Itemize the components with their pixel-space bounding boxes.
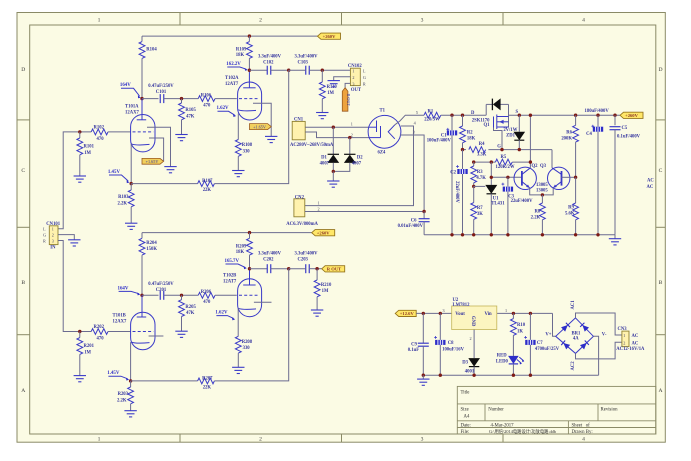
wire ground bus 12V xyxy=(423,374,598,376)
svg-text:2: 2 xyxy=(259,18,262,24)
svg-text:TL431: TL431 xyxy=(491,201,505,206)
resistor R107 feedback xyxy=(131,183,197,185)
svg-text:R6: R6 xyxy=(566,131,572,136)
svg-text:164V: 164V xyxy=(118,286,129,291)
svg-text:4A: 4A xyxy=(573,336,579,341)
ground R101 xyxy=(74,176,86,182)
svg-text:GND: GND xyxy=(470,316,475,327)
wire AC1 xyxy=(576,313,622,335)
capacitor C203 xyxy=(306,264,310,273)
wire CN2 pin2 xyxy=(305,211,424,213)
port +1.65V (T102A cathode tag) xyxy=(250,124,272,130)
resistor R201 xyxy=(79,332,81,338)
capacitor C103 xyxy=(306,66,310,75)
wire Q1 gate xyxy=(494,128,503,150)
svg-text:3.3K: 3.3K xyxy=(477,152,487,157)
svg-text:R OUT: R OUT xyxy=(327,267,341,272)
mosfet Q1 xyxy=(485,104,487,115)
svg-text:0.47uF/250V: 0.47uF/250V xyxy=(148,84,174,89)
svg-text:1: 1 xyxy=(318,200,320,205)
capacitor C202 xyxy=(250,268,268,270)
svg-text:2.2K: 2.2K xyxy=(531,216,541,221)
svg-text:File:: File: xyxy=(461,430,470,435)
svg-text:4007: 4007 xyxy=(352,162,362,167)
svg-text:12AX7: 12AX7 xyxy=(125,110,139,115)
svg-text:R101: R101 xyxy=(84,145,95,150)
svg-text:3: 3 xyxy=(421,18,424,24)
capacitor C6 xyxy=(423,212,425,219)
resistor R109 xyxy=(248,34,251,37)
resistor R102 xyxy=(91,129,108,135)
svg-text:1: 1 xyxy=(505,308,507,313)
wire T102B stub xyxy=(254,301,272,303)
LED LED0 xyxy=(508,356,519,364)
svg-text:LM7812: LM7812 xyxy=(453,303,471,308)
svg-text:Date:: Date: xyxy=(461,424,471,429)
svg-text:G: G xyxy=(43,233,46,238)
svg-text:1.45V: 1.45V xyxy=(107,371,120,376)
svg-text:IN: IN xyxy=(50,246,56,251)
svg-text:0.1uF: 0.1uF xyxy=(408,348,419,353)
node plate T102B xyxy=(248,267,251,270)
svg-text:+12.6V: +12.6V xyxy=(400,311,415,316)
capacitor C9 xyxy=(422,313,424,343)
power port +260V xyxy=(318,33,341,39)
svg-text:3: 3 xyxy=(413,130,415,135)
svg-text:1: 1 xyxy=(351,122,353,127)
svg-text:18K: 18K xyxy=(236,250,245,255)
svg-text:4-Mar-2017: 4-Mar-2017 xyxy=(491,424,515,429)
svg-text:AC: AC xyxy=(632,334,639,339)
ground R103 xyxy=(125,223,137,229)
wire emitters to R8 xyxy=(530,188,554,195)
svg-text:Revision: Revision xyxy=(601,408,619,413)
svg-text:2.2K: 2.2K xyxy=(117,399,127,404)
diode D3 xyxy=(468,358,480,367)
wire R5 row xyxy=(474,161,496,163)
svg-text:R203: R203 xyxy=(118,392,129,397)
svg-text:13005: 13005 xyxy=(536,189,548,194)
capacitor C3 xyxy=(507,177,509,186)
svg-text:A: A xyxy=(21,388,25,394)
regulator U2 LM7812 xyxy=(452,306,497,330)
resistor R4 xyxy=(469,147,486,153)
svg-text:0.01uF/400V: 0.01uF/400V xyxy=(398,224,424,229)
svg-text:Drawn By:: Drawn By: xyxy=(572,430,593,435)
svg-text:330: 330 xyxy=(243,346,251,351)
resistor R9 xyxy=(575,177,577,203)
svg-text:C103: C103 xyxy=(297,60,308,65)
wire +260V rail lower xyxy=(142,232,312,234)
resistor R5 xyxy=(495,159,512,165)
wire AC2 xyxy=(576,342,622,359)
resistor R7 xyxy=(473,186,475,202)
power port +12.6V xyxy=(395,310,416,316)
ground D1/D2 xyxy=(332,171,334,181)
shunt regulator U1 TL431 xyxy=(490,162,492,185)
svg-text:C102: C102 xyxy=(263,60,274,65)
port ROUT vertical xyxy=(342,88,348,112)
svg-text:R106: R106 xyxy=(201,93,212,98)
title block xyxy=(457,386,656,434)
svg-text:R10: R10 xyxy=(517,323,526,328)
resistor R101 xyxy=(79,132,81,138)
wire input R xyxy=(58,241,91,332)
svg-text:C101: C101 xyxy=(156,90,167,95)
svg-text:CN102: CN102 xyxy=(348,64,362,69)
ground R105 xyxy=(175,135,187,141)
svg-text:T1: T1 xyxy=(380,109,386,114)
capacitor C1 xyxy=(451,115,453,130)
svg-text:22K: 22K xyxy=(203,386,212,391)
wire CN1 pin2 to T1 xyxy=(305,132,369,138)
svg-text:C203: C203 xyxy=(297,257,308,262)
svg-text:R206: R206 xyxy=(201,290,212,295)
svg-text:Sheet of: Sheet of xyxy=(572,424,591,429)
connector CN101 xyxy=(49,226,58,245)
svg-text:R104: R104 xyxy=(146,48,157,53)
node R101 xyxy=(78,130,81,133)
svg-text:6Z4: 6Z4 xyxy=(378,150,386,155)
svg-text:470: 470 xyxy=(97,137,105,142)
resistor R209 xyxy=(248,231,251,234)
svg-text:150K: 150K xyxy=(146,247,157,252)
svg-text:AC280V~268V/50mA: AC280V~268V/50mA xyxy=(290,143,334,148)
node R2 xyxy=(461,114,464,117)
svg-text:AC2: AC2 xyxy=(571,361,576,371)
svg-text:LED0: LED0 xyxy=(496,359,509,364)
svg-text:C: C xyxy=(21,168,25,174)
svg-text:2: 2 xyxy=(623,340,625,345)
svg-text:12AT7: 12AT7 xyxy=(223,280,237,285)
diode D1 xyxy=(332,127,334,154)
port R OUT xyxy=(322,266,345,272)
node R105 xyxy=(180,97,183,100)
resistor R3 xyxy=(473,162,475,166)
svg-text:A: A xyxy=(658,388,662,394)
capacitor C7 xyxy=(529,313,531,340)
svg-text:R: R xyxy=(363,82,366,87)
resistor R205 xyxy=(181,295,183,299)
svg-text:R3: R3 xyxy=(477,170,483,175)
svg-text:OUT: OUT xyxy=(351,88,362,93)
svg-text:2: 2 xyxy=(352,75,354,80)
svg-text:T101B: T101B xyxy=(113,314,126,319)
svg-text:D2: D2 xyxy=(357,156,363,161)
node R110 xyxy=(321,69,324,72)
wire +260V rail top xyxy=(142,35,318,37)
svg-text:220/3W: 220/3W xyxy=(424,118,440,123)
wire T101A heater to ground xyxy=(147,127,171,166)
svg-text:C2: C2 xyxy=(450,170,456,175)
svg-text:CN2: CN2 xyxy=(295,195,305,200)
bus junction nodes xyxy=(450,233,453,236)
svg-text:1: 1 xyxy=(352,68,354,73)
svg-text:T102A: T102A xyxy=(225,76,239,81)
svg-text:3: 3 xyxy=(443,308,445,313)
svg-text:L: L xyxy=(43,227,46,232)
svg-text:1M: 1M xyxy=(327,91,334,96)
svg-text:470: 470 xyxy=(203,300,211,305)
svg-text:3: 3 xyxy=(421,437,424,443)
resistor R208 xyxy=(237,308,239,336)
svg-text:330: 330 xyxy=(243,149,251,154)
svg-text:+260V: +260V xyxy=(625,113,639,118)
resistor R10 xyxy=(512,313,514,318)
capacitor C2 xyxy=(462,150,464,169)
svg-text:13005: 13005 xyxy=(536,183,548,188)
wire grid row lower xyxy=(142,294,159,296)
wire T101A cathode tag xyxy=(149,138,164,161)
wire T101B stub xyxy=(149,335,164,337)
node C1 xyxy=(450,114,453,117)
ground R205 xyxy=(175,331,187,337)
svg-text:18K: 18K xyxy=(467,137,476,142)
svg-text:2.2K: 2.2K xyxy=(117,201,127,206)
svg-text:R205: R205 xyxy=(185,305,196,310)
svg-text:CN3: CN3 xyxy=(618,327,628,332)
svg-text:R207: R207 xyxy=(202,376,213,381)
node plate T102A xyxy=(248,69,251,72)
svg-text:1K: 1K xyxy=(517,329,523,334)
svg-text:100uF/16V: 100uF/16V xyxy=(442,347,464,352)
svg-text:3.3uF/400V: 3.3uF/400V xyxy=(258,54,282,59)
svg-text:+1.65V: +1.65V xyxy=(146,159,159,164)
resistor R104 xyxy=(141,36,143,41)
svg-text:162.2V: 162.2V xyxy=(226,62,241,67)
node C6 xyxy=(422,210,425,213)
node C102/C103 xyxy=(287,69,290,72)
svg-text:470: 470 xyxy=(97,337,105,342)
wire gate net xyxy=(463,149,467,151)
svg-text:R4: R4 xyxy=(479,142,485,147)
wire T101A cathode down xyxy=(130,144,132,184)
svg-text:R210: R210 xyxy=(321,283,332,288)
svg-text:+260V: +260V xyxy=(323,34,337,39)
wire T1 pin3 / CN2 pin2 xyxy=(400,135,424,212)
capacitor C5 xyxy=(613,114,616,117)
node D2 xyxy=(348,136,351,139)
wire grid row xyxy=(142,98,159,100)
wire ground bus HV xyxy=(424,234,615,236)
capacitor C201 xyxy=(160,291,164,300)
svg-text:B: B xyxy=(659,280,663,286)
svg-text:D3: D3 xyxy=(462,360,468,365)
resistor R8 xyxy=(541,195,543,203)
svg-text:12AT7: 12AT7 xyxy=(225,82,239,87)
svg-text:RED: RED xyxy=(497,354,508,359)
node plate T101A xyxy=(140,97,143,100)
wire CN1 pin1 to T1 xyxy=(305,126,369,128)
svg-text:47K: 47K xyxy=(186,311,195,316)
svg-text:4: 4 xyxy=(582,18,585,24)
svg-text:18K: 18K xyxy=(236,53,245,58)
svg-text:1: 1 xyxy=(623,333,625,338)
svg-text:1: 1 xyxy=(98,18,101,24)
svg-text:22uF/400V: 22uF/400V xyxy=(454,181,459,203)
svg-text:120K/2W: 120K/2W xyxy=(496,165,515,170)
svg-text:C5: C5 xyxy=(622,126,628,131)
svg-text:R107: R107 xyxy=(202,179,213,184)
svg-text:3: 3 xyxy=(352,82,354,87)
ground R201 xyxy=(74,376,86,382)
svg-text:4007: 4007 xyxy=(320,162,330,167)
svg-text:R OUT: R OUT xyxy=(346,94,351,107)
resistor R210 xyxy=(316,269,318,280)
resistor R204 xyxy=(141,233,143,239)
svg-text:200K: 200K xyxy=(561,137,572,142)
svg-text:3: 3 xyxy=(52,239,54,244)
svg-text:0.47uF/250V: 0.47uF/250V xyxy=(148,282,174,287)
resistor R108 xyxy=(237,114,239,140)
svg-text:R204: R204 xyxy=(146,241,157,246)
svg-text:T102B: T102B xyxy=(223,274,236,279)
svg-text:+260V: +260V xyxy=(317,231,331,236)
svg-text:180uF/400V: 180uF/400V xyxy=(585,109,610,114)
ground R208 xyxy=(232,367,244,373)
svg-text:165.7V: 165.7V xyxy=(225,259,240,264)
ground R110 xyxy=(316,113,328,119)
svg-text:Vout: Vout xyxy=(455,312,465,317)
svg-text:Vin: Vin xyxy=(485,312,493,317)
svg-text:5.6K: 5.6K xyxy=(565,212,575,217)
wire CN102 pin3 xyxy=(345,83,350,87)
svg-text:4700uF/25V: 4700uF/25V xyxy=(535,347,560,352)
svg-text:CN1: CN1 xyxy=(294,117,304,122)
wire T1 pin4 / CN2 pin1 xyxy=(305,126,414,206)
capacitor C102 xyxy=(249,69,267,71)
resistor R106 xyxy=(198,96,215,102)
svg-text:R108: R108 xyxy=(242,143,253,148)
svg-text:R208: R208 xyxy=(242,340,253,345)
wire CN102 pin2 to ground xyxy=(334,77,351,81)
diode D2 xyxy=(349,138,351,155)
svg-text:R202: R202 xyxy=(94,325,105,330)
svg-text:A4: A4 xyxy=(464,415,470,420)
svg-text:164V: 164V xyxy=(120,83,131,88)
svg-text:22uF/400V: 22uF/400V xyxy=(511,199,533,204)
resistor R110 xyxy=(321,70,323,82)
svg-text:R1: R1 xyxy=(428,109,434,114)
svg-text:0.1uF/400V: 0.1uF/400V xyxy=(617,134,641,139)
svg-text:1M: 1M xyxy=(84,151,91,156)
port +1.65V (T101A cathode tag) xyxy=(142,158,164,164)
svg-text:2: 2 xyxy=(259,437,262,443)
ground T102A xyxy=(265,136,277,142)
svg-text:1: 1 xyxy=(98,437,101,443)
svg-text:AC1: AC1 xyxy=(571,300,576,310)
svg-text:R105: R105 xyxy=(185,108,196,113)
ground bus HV xyxy=(614,235,616,239)
svg-text:AC6.3V/800mA: AC6.3V/800mA xyxy=(286,222,318,227)
svg-text:2: 2 xyxy=(318,206,320,211)
resistor R6 xyxy=(574,114,577,117)
svg-text:1.45V: 1.45V xyxy=(108,170,121,175)
svg-text:R9: R9 xyxy=(568,206,574,211)
svg-text:C201: C201 xyxy=(156,288,167,293)
svg-text:AC: AC xyxy=(632,341,639,346)
resistor R103 xyxy=(130,184,132,190)
svg-text:3.3uF/400V: 3.3uF/400V xyxy=(294,54,318,59)
svg-text:2: 2 xyxy=(470,336,472,341)
svg-text:3.3uF/400V: 3.3uF/400V xyxy=(294,251,318,256)
svg-text:C202: C202 xyxy=(263,257,274,262)
svg-text:ZD1: ZD1 xyxy=(506,133,516,138)
node R205 xyxy=(180,294,183,297)
svg-text:D: D xyxy=(21,67,25,73)
resistor R202 xyxy=(91,329,108,335)
resistor R207 feedback xyxy=(131,380,198,382)
svg-text:3.3uF/400V: 3.3uF/400V xyxy=(258,251,282,256)
wire CN101 pin2 ground xyxy=(58,235,74,240)
svg-text:AC12-16V/1A: AC12-16V/1A xyxy=(616,347,645,352)
svg-text:470: 470 xyxy=(203,103,211,108)
wire T1 pin5 to R1 xyxy=(395,115,424,125)
node D1 xyxy=(332,126,335,129)
triode T101A xyxy=(131,115,155,152)
svg-text:100uF/400V: 100uF/400V xyxy=(427,138,452,143)
svg-text:C9: C9 xyxy=(411,342,417,347)
svg-text:4001: 4001 xyxy=(465,369,475,374)
node Q3 base xyxy=(574,176,577,179)
svg-text:T101A: T101A xyxy=(125,104,139,109)
node cathode T101B xyxy=(129,379,132,382)
transistor Q2 xyxy=(514,167,536,189)
wire D rail xyxy=(441,114,486,116)
wire Q3 base xyxy=(562,176,576,178)
svg-text:V+: V+ xyxy=(545,333,551,338)
svg-text:12AX7: 12AX7 xyxy=(113,320,127,325)
svg-text:R103: R103 xyxy=(118,195,129,200)
svg-text:5: 5 xyxy=(416,110,418,115)
rectifier tube T1 xyxy=(368,115,401,148)
svg-text:3K: 3K xyxy=(477,212,483,217)
svg-text:22K: 22K xyxy=(203,188,212,193)
svg-text:1.62V: 1.62V xyxy=(217,106,230,111)
triode T102B xyxy=(238,279,262,317)
svg-text:R209: R209 xyxy=(236,244,247,249)
ground T101A heater xyxy=(164,167,176,173)
svg-text:C7: C7 xyxy=(537,341,543,346)
node C202/C203 xyxy=(287,267,290,270)
svg-text:C8: C8 xyxy=(448,341,454,346)
triode T101B xyxy=(131,312,155,349)
svg-text:1M: 1M xyxy=(84,350,91,355)
svg-text:1M: 1M xyxy=(322,289,329,294)
svg-text:R102: R102 xyxy=(94,126,105,131)
svg-text:R2: R2 xyxy=(467,131,473,136)
svg-text:Number: Number xyxy=(488,408,504,413)
wire T102A heater to ground xyxy=(253,103,271,136)
wire input L xyxy=(58,132,91,229)
svg-text:V-: V- xyxy=(602,333,607,338)
node R210 xyxy=(315,267,318,270)
triode T102A xyxy=(238,82,262,120)
svg-text:1.62V: 1.62V xyxy=(215,311,228,316)
svg-text:C6: C6 xyxy=(411,218,417,223)
power port +260V right xyxy=(620,112,643,118)
svg-text:Q1: Q1 xyxy=(484,123,491,128)
svg-text:Title: Title xyxy=(461,391,470,396)
node plate T101B xyxy=(140,294,143,297)
svg-text:C: C xyxy=(659,168,663,174)
svg-text:R: R xyxy=(43,239,46,244)
svg-text:4: 4 xyxy=(582,437,585,443)
svg-text:1: 1 xyxy=(52,227,54,232)
node D1/D2 xyxy=(332,170,335,173)
svg-text:R109: R109 xyxy=(236,47,247,52)
ground R210 xyxy=(311,310,323,316)
